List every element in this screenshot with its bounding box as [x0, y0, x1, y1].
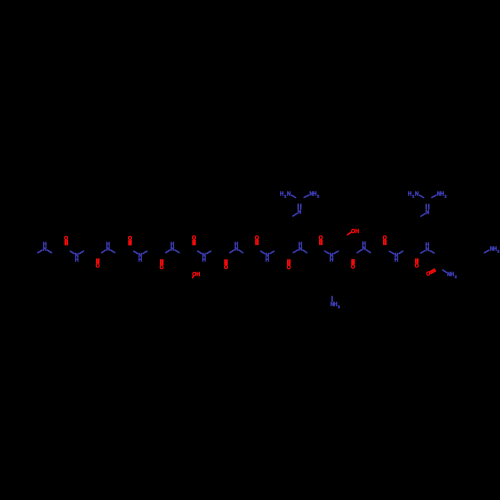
svg-text:H: H [106, 242, 110, 248]
svg-text:O: O [319, 235, 323, 241]
svg-text:O: O [287, 265, 291, 271]
svg-text:H: H [202, 257, 206, 263]
svg-text:N: N [426, 210, 430, 216]
svg-text:O: O [64, 236, 68, 242]
svg-text:H: H [196, 272, 200, 278]
svg-text:2: 2 [412, 195, 414, 199]
svg-text:2: 2 [284, 195, 286, 199]
svg-text:H: H [395, 258, 399, 264]
svg-text:N: N [287, 192, 291, 198]
svg-text:H: H [235, 242, 239, 248]
svg-text:O: O [415, 263, 419, 269]
svg-text:H: H [426, 243, 430, 249]
svg-text:H: H [171, 242, 175, 248]
svg-text:H: H [355, 229, 359, 235]
svg-text:O: O [383, 235, 387, 241]
svg-text:O: O [160, 265, 164, 271]
svg-text:H: H [75, 258, 79, 264]
svg-text:O: O [96, 263, 100, 269]
svg-text:2: 2 [455, 275, 457, 279]
svg-text:2: 2 [497, 249, 499, 253]
svg-text:O: O [255, 235, 259, 241]
svg-text:2: 2 [445, 195, 447, 199]
svg-text:N: N [415, 192, 419, 198]
svg-text:H: H [43, 242, 47, 248]
svg-text:H: H [265, 258, 269, 264]
svg-text:H: H [362, 242, 366, 248]
svg-text:H: H [330, 257, 334, 263]
svg-text:H: H [299, 242, 303, 248]
svg-text:N: N [298, 210, 302, 216]
svg-text:O: O [128, 236, 132, 242]
svg-text:2: 2 [317, 195, 319, 199]
svg-text:O: O [351, 265, 355, 271]
svg-text:O: O [224, 265, 228, 271]
svg-text:2: 2 [338, 305, 340, 309]
svg-text:O: O [426, 272, 430, 278]
svg-text:O: O [192, 236, 196, 242]
svg-text:H: H [138, 258, 142, 264]
